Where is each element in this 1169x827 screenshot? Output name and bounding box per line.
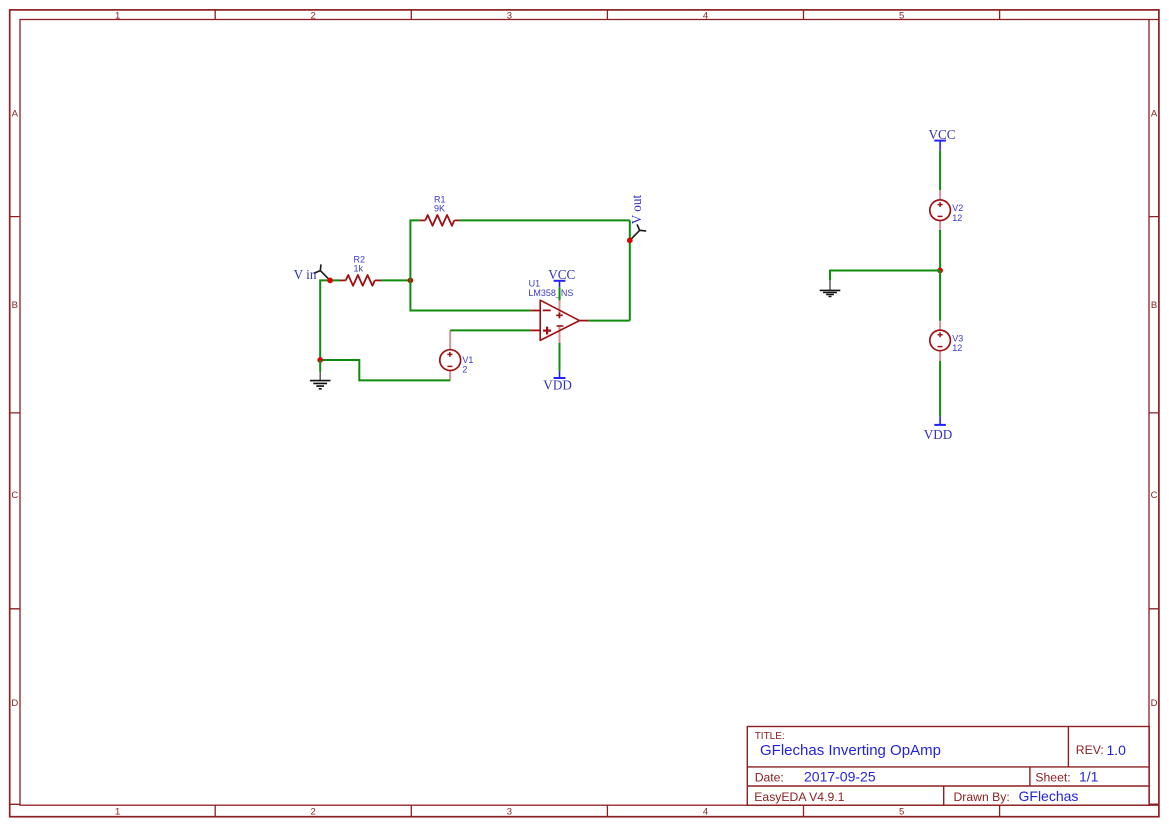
- svg-text:C: C: [1151, 490, 1158, 501]
- V1 pin + (top): [449, 330, 451, 349]
- R1 pin 1: [420, 219, 426, 221]
- svg-text:LM358_NS: LM358_NS: [528, 288, 573, 298]
- svg-text:1: 1: [115, 806, 120, 817]
- resistor R1: [420, 194, 460, 225]
- U1 V- power mark: [557, 325, 564, 327]
- junction ground node left: [317, 357, 323, 363]
- net label V in: [294, 267, 317, 282]
- junction node A: [408, 278, 414, 284]
- svg-text:2: 2: [311, 806, 316, 817]
- ground GND left: [310, 372, 331, 389]
- U1 inverting input mark: [543, 309, 551, 311]
- svg-text:5: 5: [899, 806, 904, 817]
- svg-text:2017-09-25: 2017-09-25: [804, 769, 876, 785]
- junction V in / R2: [327, 278, 333, 284]
- svg-text:B: B: [12, 300, 18, 311]
- V3 plus mark: [938, 332, 943, 337]
- V2 plus mark: [938, 202, 943, 207]
- V2 pin - (bottom): [939, 220, 941, 230]
- svg-text:VDD: VDD: [924, 427, 953, 442]
- svg-text:1: 1: [115, 10, 120, 21]
- svg-text:1/1: 1/1: [1079, 769, 1099, 785]
- R2 body: [346, 275, 375, 286]
- U1 VCC power pin: [559, 300, 561, 318]
- V1 body circle: [440, 350, 461, 371]
- svg-text:V1: V1: [462, 355, 473, 365]
- junction mid rail: [937, 268, 943, 274]
- power flag VCC at U1: [548, 267, 575, 287]
- svg-text:V out: V out: [629, 195, 644, 225]
- svg-text:9K: 9K: [434, 204, 445, 214]
- V1 minus mark: [447, 365, 452, 367]
- svg-text:4: 4: [703, 10, 708, 21]
- voltage source V2: [930, 190, 964, 230]
- wire U1 to VDD flag: [559, 343, 561, 371]
- svg-text:D: D: [1151, 698, 1158, 709]
- U1 V+ power mark: [556, 313, 563, 319]
- svg-text:VCC: VCC: [548, 267, 575, 282]
- probe flag V in: [315, 265, 330, 280]
- U1 triangle body: [540, 300, 579, 340]
- svg-text:EasyEDA V4.9.1: EasyEDA V4.9.1: [754, 790, 844, 804]
- wire V1 to U1 non-inverting input: [450, 329, 530, 331]
- wire V in vertical: [320, 280, 340, 360]
- svg-text:Drawn By:: Drawn By:: [954, 790, 1010, 804]
- V3 body circle: [930, 330, 951, 351]
- U1 non-inverting input pin: [530, 329, 540, 331]
- junction V out: [627, 238, 633, 244]
- svg-text:Date:: Date:: [755, 771, 784, 785]
- svg-text:5: 5: [899, 10, 904, 21]
- svg-text:4: 4: [703, 806, 708, 817]
- svg-text:V3: V3: [952, 333, 963, 343]
- voltage source V1: [440, 330, 474, 380]
- power flag VDD at U1: [543, 371, 572, 393]
- svg-text:2: 2: [311, 10, 316, 21]
- svg-text:A: A: [1151, 109, 1158, 120]
- voltage source V3: [930, 321, 964, 361]
- V1 pin - (bottom): [449, 371, 451, 381]
- wire junction to ground stub: [319, 360, 321, 372]
- probe flag V out: [630, 225, 646, 240]
- V3 minus mark: [938, 346, 943, 348]
- svg-text:A: A: [12, 109, 19, 120]
- svg-text:V2: V2: [952, 203, 963, 213]
- V2 pin + (top): [939, 190, 941, 200]
- wire node A to U1 inverting input: [410, 280, 530, 310]
- power flag VCC right rail: [928, 127, 955, 151]
- svg-text:D: D: [11, 698, 18, 709]
- R1 pin 2: [454, 219, 459, 221]
- wire U1 output to column: [589, 320, 630, 322]
- wire R2 to node A: [381, 279, 410, 281]
- U1 output pin: [579, 320, 588, 322]
- V3 pin - (bottom): [939, 351, 941, 361]
- wire V1 return to ground: [320, 360, 450, 380]
- wire node A up to R1: [410, 220, 419, 280]
- power flag VDD right rail: [924, 417, 953, 443]
- svg-text:1.0: 1.0: [1107, 742, 1127, 758]
- wire V3 to VDD: [939, 361, 941, 417]
- R2 pin 1: [340, 279, 346, 281]
- U1 non-inverting input mark: [543, 327, 551, 335]
- wire VCC flag to U1: [559, 287, 561, 300]
- U1 inverting input pin: [530, 310, 540, 312]
- wire output column vertical: [629, 220, 631, 320]
- R1 body: [425, 215, 454, 226]
- svg-text:TITLE:: TITLE:: [755, 731, 785, 742]
- V3 pin + (top): [939, 321, 941, 330]
- U1 VDD power pin: [559, 327, 561, 343]
- op-amp U1: [528, 278, 588, 343]
- svg-text:C: C: [11, 490, 18, 501]
- svg-text:REV:: REV:: [1076, 743, 1104, 757]
- title block: [747, 727, 1149, 806]
- wire R1 to output column: [460, 219, 630, 221]
- svg-text:12: 12: [952, 213, 962, 223]
- wire mid junction to right ground: [830, 271, 940, 281]
- V2 body circle: [930, 200, 951, 221]
- svg-text:VCC: VCC: [928, 127, 955, 142]
- svg-text:3: 3: [507, 806, 512, 817]
- svg-text:V in: V in: [294, 267, 317, 282]
- svg-text:1k: 1k: [354, 264, 364, 274]
- resistor R2: [340, 254, 381, 286]
- ground GND right: [820, 280, 841, 296]
- V1 plus mark: [447, 352, 452, 357]
- svg-text:3: 3: [507, 10, 512, 21]
- wire mid junction to V3: [939, 271, 941, 321]
- wire VCC to V2: [939, 150, 941, 190]
- svg-text:VDD: VDD: [543, 377, 572, 392]
- wire V2 to mid junction: [939, 230, 941, 271]
- svg-text:Sheet:: Sheet:: [1035, 771, 1070, 785]
- svg-text:B: B: [1151, 300, 1157, 311]
- svg-text:2: 2: [462, 365, 467, 375]
- V2 minus mark: [938, 215, 943, 217]
- net label V out: [629, 195, 644, 225]
- svg-text:GFlechas: GFlechas: [1019, 788, 1079, 804]
- R2 pin 2: [375, 279, 381, 281]
- svg-text:12: 12: [952, 343, 962, 353]
- svg-text:GFlechas Inverting OpAmp: GFlechas Inverting OpAmp: [760, 742, 941, 759]
